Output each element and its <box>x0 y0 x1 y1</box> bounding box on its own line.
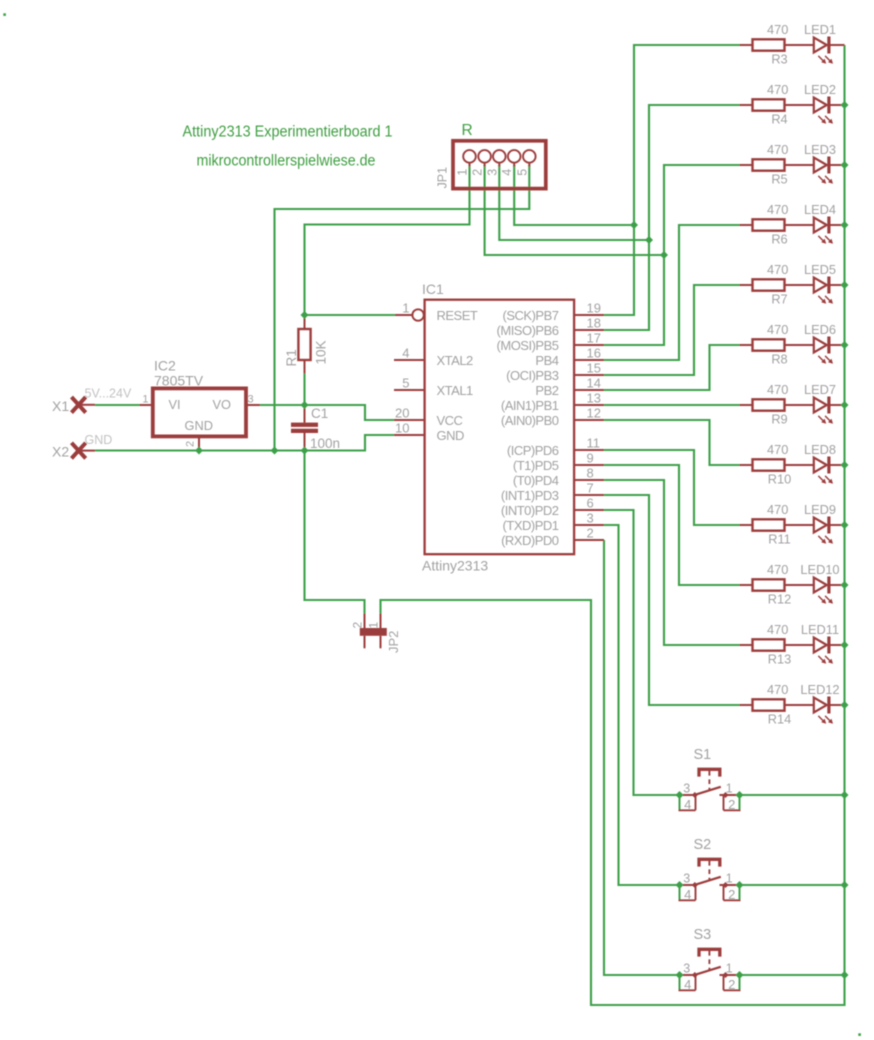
svg-text:X2: X2 <box>52 444 69 460</box>
svg-text:15: 15 <box>587 361 601 376</box>
svg-text:470: 470 <box>767 22 788 37</box>
svg-text:16: 16 <box>587 346 601 361</box>
svg-text:4: 4 <box>500 169 514 176</box>
svg-text:470: 470 <box>767 382 788 397</box>
svg-text:8: 8 <box>587 466 594 481</box>
svg-text:470: 470 <box>767 622 788 637</box>
svg-text:470: 470 <box>767 682 788 697</box>
svg-text:S2: S2 <box>694 837 712 853</box>
svg-text:13: 13 <box>587 391 601 406</box>
svg-text:LED10: LED10 <box>800 562 839 577</box>
svg-text:R: R <box>462 122 473 139</box>
svg-text:mikrocontrollerspielwiese.de: mikrocontrollerspielwiese.de <box>197 153 376 170</box>
svg-text:PB4: PB4 <box>535 353 558 368</box>
svg-text:JP2: JP2 <box>386 631 401 653</box>
svg-text:(INT1)PD3: (INT1)PD3 <box>501 488 559 503</box>
svg-text:R6: R6 <box>771 231 787 246</box>
svg-text:LED2: LED2 <box>804 82 836 97</box>
svg-text:2: 2 <box>587 526 594 541</box>
svg-text:470: 470 <box>767 562 788 577</box>
svg-text:R7: R7 <box>771 291 787 306</box>
svg-text:4: 4 <box>684 887 691 902</box>
svg-text:5: 5 <box>515 169 529 176</box>
svg-text:R5: R5 <box>771 171 787 186</box>
svg-text:(T1)PD5: (T1)PD5 <box>513 458 559 473</box>
svg-text:2: 2 <box>728 797 735 812</box>
svg-text:LED5: LED5 <box>804 262 836 277</box>
svg-text:XTAL2: XTAL2 <box>437 353 474 368</box>
svg-text:(RXD)PD0: (RXD)PD0 <box>501 533 559 548</box>
svg-text:S3: S3 <box>694 927 712 943</box>
svg-text:470: 470 <box>767 502 788 517</box>
svg-text:1: 1 <box>142 394 148 406</box>
svg-text:3: 3 <box>248 394 254 406</box>
svg-text:S1: S1 <box>694 747 712 763</box>
svg-text:R1: R1 <box>284 349 299 366</box>
svg-text:3: 3 <box>683 962 690 976</box>
svg-text:PB2: PB2 <box>535 383 558 398</box>
svg-text:LED3: LED3 <box>804 142 836 157</box>
svg-text:LED12: LED12 <box>800 682 839 697</box>
svg-text:R10: R10 <box>768 471 791 486</box>
svg-text:2: 2 <box>185 441 197 447</box>
svg-text:XTAL1: XTAL1 <box>437 383 474 398</box>
svg-text:(SCK)PB7: (SCK)PB7 <box>503 308 559 323</box>
svg-text:LED11: LED11 <box>801 622 839 637</box>
svg-text:LED7: LED7 <box>804 382 836 397</box>
svg-text:R11: R11 <box>768 531 791 546</box>
svg-text:RESET: RESET <box>437 308 478 323</box>
svg-text:(INT0)PD2: (INT0)PD2 <box>501 503 559 518</box>
svg-text:(MOSI)PB5: (MOSI)PB5 <box>497 338 559 353</box>
svg-text:7: 7 <box>587 481 594 496</box>
svg-text:X1: X1 <box>52 398 69 414</box>
svg-text:3: 3 <box>683 782 690 796</box>
svg-text:GND: GND <box>185 418 213 433</box>
svg-text:3: 3 <box>587 511 594 526</box>
svg-text:5: 5 <box>402 376 409 391</box>
svg-text:4: 4 <box>684 977 691 992</box>
svg-text:19: 19 <box>587 301 601 316</box>
svg-text:10K: 10K <box>314 340 329 364</box>
svg-text:1: 1 <box>726 782 733 796</box>
svg-text:Attiny2313 Experimentierboard: Attiny2313 Experimentierboard 1 <box>183 124 393 141</box>
svg-text:C1: C1 <box>311 406 328 421</box>
svg-text:470: 470 <box>767 142 788 157</box>
svg-text:(TXD)PD1: (TXD)PD1 <box>503 518 559 533</box>
svg-text:2: 2 <box>728 887 735 902</box>
svg-text:9: 9 <box>587 451 594 466</box>
svg-text:LED9: LED9 <box>804 502 836 517</box>
svg-text:3: 3 <box>485 169 499 176</box>
svg-text:3: 3 <box>683 872 690 886</box>
svg-text:1: 1 <box>402 301 409 316</box>
svg-text:(AIN1)PB1: (AIN1)PB1 <box>501 398 559 413</box>
svg-text:VI: VI <box>169 397 181 412</box>
svg-text:(AIN0)PB0: (AIN0)PB0 <box>501 413 559 428</box>
svg-text:R14: R14 <box>768 711 791 726</box>
svg-text:IC1: IC1 <box>422 281 444 297</box>
svg-text:20: 20 <box>395 406 409 421</box>
svg-text:LED1: LED1 <box>804 22 836 37</box>
svg-text:1: 1 <box>726 872 733 886</box>
svg-text:470: 470 <box>767 322 788 337</box>
svg-text:R9: R9 <box>771 411 787 426</box>
svg-text:17: 17 <box>587 331 601 346</box>
svg-text:7805TV: 7805TV <box>154 373 204 389</box>
svg-text:LED8: LED8 <box>804 442 836 457</box>
svg-text:2: 2 <box>351 622 365 629</box>
svg-text:(MISO)PB6: (MISO)PB6 <box>497 323 559 338</box>
svg-text:10: 10 <box>395 421 409 436</box>
svg-text:5V...24V: 5V...24V <box>85 387 132 401</box>
svg-text:R12: R12 <box>768 591 791 606</box>
svg-text:(ICP)PD6: (ICP)PD6 <box>507 443 559 458</box>
svg-text:JP1: JP1 <box>436 167 450 189</box>
svg-text:1: 1 <box>456 169 470 176</box>
svg-text:470: 470 <box>767 262 788 277</box>
svg-text:Attiny2313: Attiny2313 <box>422 558 488 574</box>
svg-text:470: 470 <box>767 202 788 217</box>
svg-text:12: 12 <box>587 406 601 421</box>
svg-text:R4: R4 <box>771 111 787 126</box>
svg-text:4: 4 <box>684 797 691 812</box>
svg-text:11: 11 <box>587 436 601 451</box>
svg-text:R8: R8 <box>771 351 787 366</box>
svg-text:14: 14 <box>587 376 601 391</box>
svg-text:R13: R13 <box>768 651 791 666</box>
svg-text:2: 2 <box>728 977 735 992</box>
svg-text:LED4: LED4 <box>804 202 836 217</box>
svg-text:470: 470 <box>767 442 788 457</box>
svg-text:470: 470 <box>767 82 788 97</box>
svg-text:1: 1 <box>726 962 733 976</box>
svg-text:2: 2 <box>471 169 485 176</box>
svg-text:1: 1 <box>367 622 381 629</box>
svg-text:4: 4 <box>402 346 409 361</box>
svg-text:100n: 100n <box>310 436 340 451</box>
svg-text:R3: R3 <box>771 51 787 66</box>
svg-text:18: 18 <box>587 316 601 331</box>
svg-text:6: 6 <box>587 496 594 511</box>
svg-text:LED6: LED6 <box>804 322 836 337</box>
svg-text:(T0)PD4: (T0)PD4 <box>513 473 559 488</box>
svg-text:GND: GND <box>85 433 113 447</box>
svg-text:VO: VO <box>213 397 232 412</box>
svg-text:IC2: IC2 <box>154 358 176 374</box>
svg-text:VCC: VCC <box>437 413 463 428</box>
svg-text:(OCI)PB3: (OCI)PB3 <box>506 368 559 383</box>
svg-text:GND: GND <box>437 428 465 443</box>
